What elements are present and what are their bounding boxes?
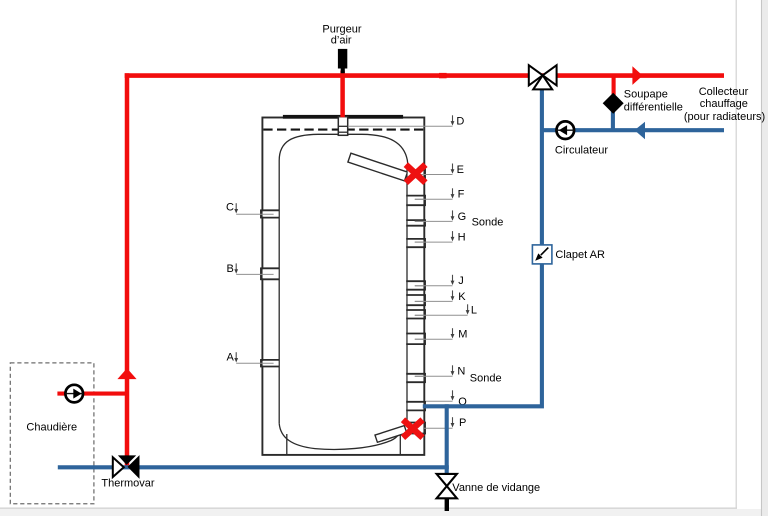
3-way valve at top (mixing valve)	[529, 65, 557, 89]
node F label	[415, 188, 465, 200]
svg-text:Collecteur: Collecteur	[699, 86, 749, 98]
svg-text:K: K	[458, 291, 466, 303]
port M	[406, 333, 426, 345]
port C	[260, 210, 279, 219]
svg-text:E: E	[457, 164, 464, 176]
tank inner dome	[279, 134, 409, 172]
svg-text:Sonde: Sonde	[472, 217, 504, 229]
port F	[406, 195, 426, 206]
port L	[406, 309, 426, 319]
page bottom edge line	[0, 507, 737, 509]
svg-text:Clapet AR: Clapet AR	[555, 249, 605, 261]
port G	[406, 219, 426, 226]
tank top dashed line	[263, 129, 423, 131]
svg-text:Thermovar: Thermovar	[101, 478, 155, 490]
node A label	[227, 352, 274, 364]
tank inner wall left	[278, 161, 280, 424]
thermovar 3-way valve	[113, 455, 139, 477]
soupape differentielle diamond	[603, 93, 624, 114]
node M label	[415, 328, 468, 340]
tank bottom dish	[279, 423, 402, 449]
tank outer shell	[262, 118, 424, 455]
heat exchanger tube bottom	[375, 426, 407, 443]
node P label	[424, 417, 466, 429]
node N label	[415, 365, 466, 377]
node G label	[415, 210, 466, 223]
circulateur pump	[556, 121, 574, 139]
port K	[406, 294, 426, 306]
node J label	[415, 275, 464, 287]
wire red boiler branch	[57, 392, 129, 396]
right scrollbar strip	[762, 0, 768, 516]
svg-text:J: J	[458, 275, 464, 287]
node H label	[415, 231, 466, 243]
svg-text:B: B	[227, 263, 234, 275]
port E	[408, 167, 425, 181]
node B label	[227, 263, 274, 275]
port H	[406, 238, 426, 248]
svg-text:A: A	[227, 352, 235, 364]
wire red stub to differential valve	[612, 77, 616, 95]
purgeur d'air symbol	[338, 49, 347, 73]
svg-text:G: G	[458, 211, 467, 223]
svg-text:différentielle: différentielle	[624, 101, 683, 113]
page right edge line	[735, 0, 737, 508]
svg-text:Vanne de vidange: Vanne de vidange	[452, 482, 540, 494]
svg-text:chauffage: chauffage	[700, 98, 748, 110]
node L label	[415, 304, 477, 316]
wire blue collector return	[542, 128, 724, 132]
svg-text:Circulateur: Circulateur	[555, 145, 609, 157]
node O label	[426, 390, 467, 408]
wire red supply top horizontal	[125, 73, 724, 78]
wire red supply joint overlap	[439, 73, 447, 78]
dish support left	[286, 434, 288, 454]
port A	[260, 359, 279, 367]
port D tube at tank top	[338, 117, 347, 136]
node K label	[415, 290, 466, 302]
svg-text:(pour radiateurs): (pour radiateurs)	[684, 111, 765, 123]
node C label	[226, 202, 274, 215]
vanne de vidange drain valve	[437, 474, 457, 511]
red flow arrow up on riser	[117, 368, 136, 379]
port P	[406, 422, 426, 434]
heat exchanger tube top	[348, 153, 408, 181]
tank inner wall right	[406, 166, 408, 422]
node E label	[416, 164, 464, 176]
svg-text:Sonde: Sonde	[470, 372, 502, 384]
page bottom strip	[0, 509, 768, 516]
tank top insulation bar	[283, 115, 403, 119]
svg-text:L: L	[471, 305, 477, 317]
blocked port E cross	[406, 165, 426, 183]
svg-text:P: P	[459, 417, 466, 429]
node D label	[348, 115, 465, 127]
svg-text:Chaudière: Chaudière	[26, 422, 77, 434]
port B	[260, 268, 279, 280]
dish support right	[399, 430, 401, 455]
chaudiere dashed enclosure	[10, 363, 94, 504]
red flow arrow right to collector	[632, 66, 642, 85]
port O	[406, 401, 426, 411]
boiler pump	[65, 385, 83, 403]
blocked port P cross	[403, 420, 423, 438]
clapet AR check valve box	[532, 245, 552, 264]
svg-text:d’air: d’air	[331, 35, 352, 47]
svg-text:F: F	[458, 189, 465, 201]
svg-text:M: M	[458, 328, 467, 340]
wire red tank top stub (purgeur drop)	[340, 71, 345, 118]
wire red left vertical riser	[125, 73, 130, 466]
svg-text:H: H	[458, 231, 466, 243]
svg-text:Soupape: Soupape	[624, 89, 668, 101]
wire blue bottom return to thermovar	[58, 465, 449, 469]
wire blue main return vertical + port O run	[423, 87, 542, 407]
blue flow arrow left from collector	[635, 122, 646, 140]
svg-text:C: C	[226, 202, 234, 214]
wire blue drain drop	[445, 404, 449, 473]
svg-text:D: D	[456, 116, 464, 128]
port J	[406, 281, 426, 291]
port N	[406, 373, 426, 383]
svg-text:Purgeur: Purgeur	[322, 23, 361, 35]
svg-text:N: N	[457, 366, 465, 378]
wire blue stub below differential valve	[611, 111, 615, 130]
